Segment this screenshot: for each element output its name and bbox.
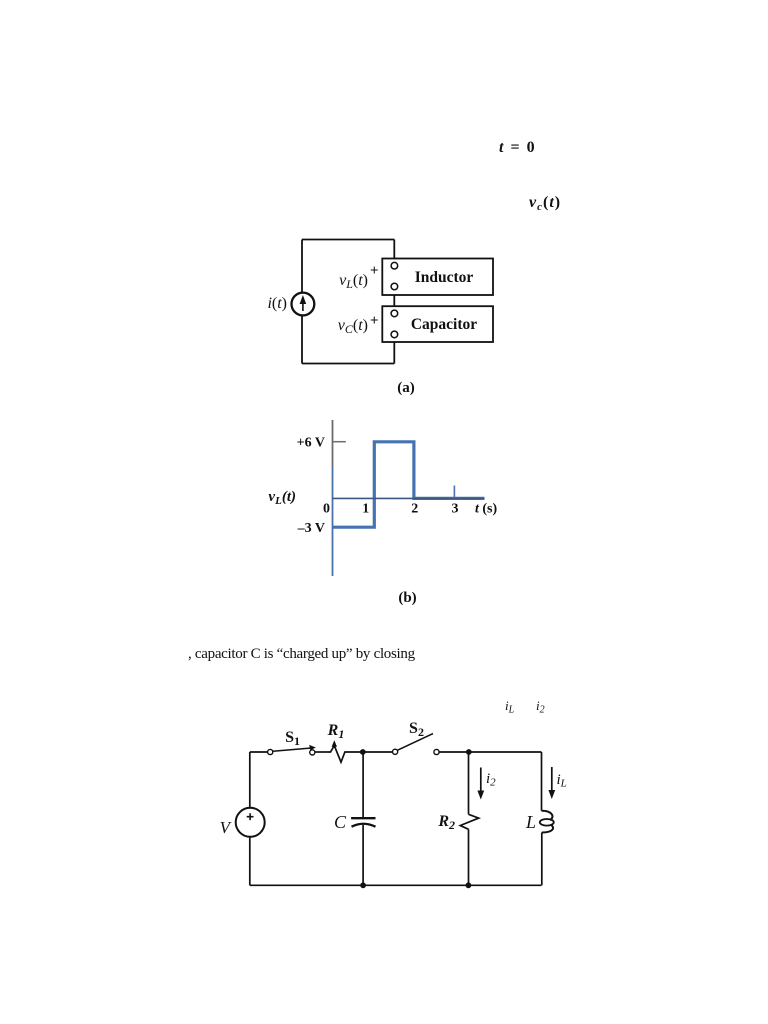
wire R2 branch upper [468,752,470,814]
svg-text:(a): (a) [397,380,415,396]
resistor R1 [327,746,362,763]
svg-text:L: L [525,812,536,832]
current source arrow [302,299,304,311]
wire S1 to R1 [315,751,328,753]
svg-text:i2: i2 [486,771,496,789]
tick +6V [333,441,346,443]
node vc(t) label [529,194,561,212]
switch S2 right terminal [434,749,439,754]
terminal 2 [391,283,398,290]
voltage source + sign [247,813,254,820]
arrow i2 [480,768,482,794]
svg-text:i2: i2 [536,698,545,716]
svg-text:R1: R1 [327,722,345,741]
wire left upper [249,752,251,808]
svg-text:S1: S1 [285,729,300,748]
wire left upper [301,240,303,293]
inductor L coil [542,811,553,821]
svg-text:Inductor: Inductor [415,269,474,286]
svg-text:V: V [220,818,233,837]
switch S2 left terminal [393,749,398,754]
resistor R2 [460,814,478,829]
voltage source V [236,808,265,837]
svg-text:+6 V: +6 V [297,436,325,451]
caption text line [188,646,415,663]
svg-text:vL(t): vL(t) [268,489,296,507]
svg-text:+: + [370,313,379,329]
capacitor C branch lower wire [362,825,364,885]
wire R1 to S2 [363,751,393,753]
svg-text:+: + [370,263,379,279]
wire bottom [302,363,394,365]
node junction C top [360,749,366,755]
wire top-left [250,751,268,753]
wire right lower [393,338,395,364]
svg-text:vL(t): vL(t) [339,272,368,291]
node junction R2 bottom [466,882,472,888]
svg-text:R2: R2 [437,813,455,832]
node junction R2 top [466,749,472,755]
tick t=3 [453,486,455,499]
wire L branch lower [541,833,543,886]
svg-text:C: C [334,812,347,832]
terminal 1 [391,262,398,269]
switch S1 blade arrowhead [309,745,316,750]
wire left lower [249,836,251,885]
capacitor C bottom plate (curved) [352,824,376,827]
figure : RLC switching circuit [210,690,600,910]
wire right: L branch upper [541,752,543,811]
svg-text:Capacitor: Capacitor [411,316,477,333]
svg-text:vC(t): vC(t) [338,317,368,336]
svg-text:0: 0 [323,502,330,517]
waveform vL(t) [333,442,485,527]
capacitor box U-C [382,306,493,342]
svg-text:iL: iL [557,772,567,790]
node t=0 label [499,139,536,157]
resistor R1 arrow tip [333,744,335,749]
inductor box U-L [382,259,493,296]
switch S1 blade [273,748,313,751]
wire top [302,239,394,241]
arrow iL [551,767,553,793]
terminal 3 [391,310,398,317]
capacitor C top plate [351,817,375,819]
capacitor C branch upper wire [362,752,364,818]
axis vertical lower blue [332,468,334,576]
switch S1 right terminal [310,750,315,755]
figure (b) : vL(t) waveform graph [260,415,510,610]
svg-text:(b): (b) [398,590,416,606]
svg-text:i(t): i(t) [267,295,287,312]
svg-text:S2: S2 [409,720,424,739]
wire R2 branch lower [468,829,470,885]
axis vertical upper gray [332,420,334,468]
svg-text:2: 2 [411,502,418,517]
switch S1 left terminal [268,749,273,754]
wire between inductor and capacitor terminals [393,290,395,311]
resistor R1 arrowhead [332,740,337,747]
wire S2 to right corner [439,751,542,753]
svg-text:iL: iL [505,698,515,716]
wire bottom [250,884,542,886]
terminal 4 [391,331,398,338]
svg-text:t (s): t (s) [475,502,498,517]
current source i(t) [292,293,315,316]
node junction C bottom [360,882,366,888]
wire right upper [393,240,395,263]
switch S2 blade [397,734,433,751]
figure (a) : source + inductor/capacitor boxes [250,225,520,405]
svg-text:3: 3 [452,502,459,517]
wire left lower [301,316,303,364]
svg-text:–3 V: –3 V [297,521,325,536]
svg-text:1: 1 [362,502,369,517]
axis horizontal t [333,497,485,499]
